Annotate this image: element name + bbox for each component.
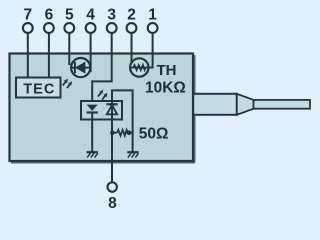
laser diode LD (left, pointing down): [87, 105, 98, 152]
wire pin4 to photodiode: [90, 33, 92, 72]
junction node right: [127, 130, 132, 135]
pin 1: [148, 7, 158, 33]
svg-text:50Ω: 50Ω: [139, 125, 169, 142]
svg-text:6: 6: [45, 7, 54, 24]
svg-text:TEC: TEC: [23, 81, 55, 97]
wire pin3 jog to laser diode anode: [92, 33, 112, 105]
light emission arrows from laser diode: [98, 90, 108, 100]
wire pin7 to TEC: [27, 33, 29, 78]
ground (left): [87, 152, 98, 157]
wire diode cathode to 50 ohm net: [112, 90, 133, 151]
pin 6: [44, 7, 54, 33]
light arrows into photodiode: [63, 79, 72, 89]
svg-text:TH: TH: [157, 62, 177, 79]
pin 2: [127, 7, 137, 33]
TEC cooler: [16, 78, 61, 98]
svg-text:3: 3: [107, 7, 116, 24]
pin 8: [108, 182, 118, 212]
diode (right, pointing up): [106, 104, 117, 114]
pin 7: [23, 7, 33, 33]
fiber ferrule: [193, 94, 310, 115]
svg-text:10KΩ: 10KΩ: [145, 80, 186, 97]
svg-text:4: 4: [86, 7, 95, 24]
svg-text:5: 5: [65, 7, 74, 24]
resistor 50 ohm: [112, 130, 133, 136]
wire pin6 to TEC: [48, 33, 50, 78]
monitor photodiode PD: [71, 58, 90, 77]
svg-text:1: 1: [148, 7, 157, 24]
pin 4: [86, 7, 96, 33]
wire pin2 to thermistor: [131, 33, 133, 63]
ground (right): [127, 152, 138, 157]
pin 5: [64, 7, 74, 33]
svg-text:8: 8: [108, 195, 117, 212]
wire pin1 to thermistor: [148, 33, 153, 68]
thermistor TH: [130, 58, 148, 76]
pin 3: [107, 7, 117, 33]
wire pin5 to photodiode: [68, 33, 70, 65]
svg-text:7: 7: [23, 7, 32, 24]
junction node left: [110, 130, 115, 135]
svg-text:2: 2: [127, 7, 136, 24]
wire diode anode down to pin 8: [111, 105, 113, 182]
module package outline: [10, 54, 195, 163]
laser diode package box: [81, 101, 122, 120]
